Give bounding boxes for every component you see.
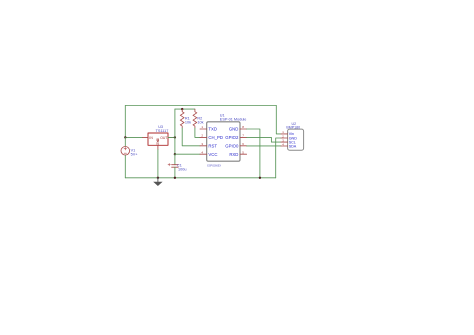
wire 5V top rail <box>125 105 276 107</box>
svg-text:TXD: TXD <box>208 127 217 132</box>
node regulator OUT junction <box>174 136 176 138</box>
wire 3.3V rail <box>175 108 195 110</box>
pin stub U1 GPIO2 <box>240 136 247 138</box>
svg-text:OUT: OUT <box>160 136 167 140</box>
svg-text:ESP8266EX: ESP8266EX <box>207 164 221 167</box>
svg-text:5: 5 <box>242 150 244 154</box>
regulator U3 body <box>148 133 168 145</box>
wire regulator OUT to junction <box>168 136 175 138</box>
pin stub U1 GND <box>240 128 247 130</box>
wire bottom ground rail <box>125 177 275 179</box>
resistor R1 <box>180 109 184 128</box>
resistor R2 <box>193 109 197 128</box>
pin stub U1 VCC <box>200 153 207 155</box>
svg-text:VCC: VCC <box>208 152 217 157</box>
wire VCC junction down to C1 <box>174 154 176 165</box>
svg-text:GPIO0: GPIO0 <box>225 143 239 148</box>
pin stub regulator OUT <box>168 136 174 138</box>
node C1 ground junction <box>174 177 176 179</box>
wire V1 bottom lead to ground rail <box>124 155 126 177</box>
svg-text:1: 1 <box>201 125 203 129</box>
pin stub U2 Vin <box>281 133 288 135</box>
svg-text:2: 2 <box>201 134 203 138</box>
svg-text:IN: IN <box>149 136 153 140</box>
wire ESP GND to ground rail <box>247 129 260 178</box>
voltage source V1 <box>121 147 130 156</box>
sensor BMP180 U2 body <box>288 129 304 150</box>
pin stub U1 RXD <box>240 153 247 155</box>
wire 5V rail down to BMP Vin <box>276 106 281 134</box>
svg-text:SDA: SDA <box>289 145 297 149</box>
pin stub U1 RST <box>200 145 207 147</box>
regulator GND pin marker <box>157 140 159 142</box>
wire 3.3V vertical (rail corner down through OUT to VCC junction) <box>174 109 176 154</box>
pin stub regulator IN <box>143 136 148 138</box>
pin stub regulator GND <box>157 145 159 149</box>
op ESP-01 module U1 body <box>207 122 240 161</box>
wire R1 bottom to RST <box>182 128 200 146</box>
svg-text:10k: 10k <box>185 121 191 125</box>
capacitor C1 <box>168 163 178 167</box>
wire V1 top lead <box>124 137 126 146</box>
pin stub U1 TXD <box>200 128 207 130</box>
svg-text:3: 3 <box>201 142 203 146</box>
svg-text:RST: RST <box>208 143 217 148</box>
svg-text:GND: GND <box>229 127 239 132</box>
svg-text:ESP-01 Module: ESP-01 Module <box>220 118 247 122</box>
svg-text:100u: 100u <box>178 167 186 171</box>
svg-text:6: 6 <box>242 142 244 146</box>
wire V1 to regulator IN <box>125 136 142 138</box>
wire 5V left vertical (rail to V1/IN junction) <box>124 106 126 138</box>
node ESP GND rail junction <box>259 177 261 179</box>
wire regulator GND to ground rail <box>157 150 159 178</box>
node regulator GND rail junction <box>157 177 159 179</box>
wire C1 bottom to ground rail <box>174 167 176 178</box>
pin stub U2 GND <box>281 137 288 139</box>
node R1 top junction <box>181 108 183 110</box>
svg-text:GPIO2: GPIO2 <box>225 135 239 140</box>
pin stub U1 CH_PD <box>200 136 207 138</box>
wire BMP GND down to ground rail <box>276 138 281 178</box>
svg-text:TS1117: TS1117 <box>156 129 169 133</box>
svg-text:RXD: RXD <box>229 152 238 157</box>
wire GPIO0 to SDA <box>247 145 281 147</box>
pin stub U1 GPIO0 <box>240 145 247 147</box>
svg-text:4: 4 <box>201 150 203 154</box>
pin stub U2 SDA <box>281 145 288 147</box>
svg-text:8: 8 <box>242 125 244 129</box>
wire R2 bottom to CH_PD <box>195 128 200 137</box>
node V1-IN junction <box>124 136 126 138</box>
node VCC junction <box>174 153 176 155</box>
svg-text:GND: GND <box>156 137 160 145</box>
svg-text:7: 7 <box>242 134 244 138</box>
wire VCC junction to ESP VCC <box>175 153 200 155</box>
svg-text:CH_PD: CH_PD <box>208 135 223 140</box>
svg-text:BMP180: BMP180 <box>286 126 300 130</box>
wire GPIO2 to SCL <box>247 137 281 142</box>
svg-text:10k: 10k <box>197 121 203 125</box>
pin stub U2 SCL <box>281 141 288 143</box>
ground symbol <box>153 178 162 186</box>
svg-text:5V+: 5V+ <box>131 153 139 157</box>
